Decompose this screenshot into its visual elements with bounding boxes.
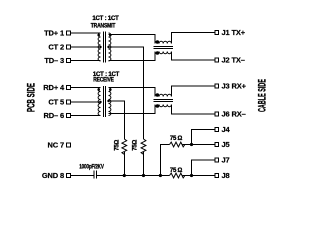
wire T2 secondary top to choke L2 <box>109 88 156 97</box>
svg-text:CT 2: CT 2 <box>48 43 64 52</box>
pin 1 TD+ <box>67 31 101 35</box>
wire T2 secondary CT down to R1 <box>109 101 125 139</box>
wire choke L2 top to J3 <box>171 86 215 97</box>
pin 6 RD- <box>67 114 101 118</box>
pin J7 <box>215 158 219 162</box>
choke L2 bottom winding <box>155 105 171 107</box>
transformer T1 left winding <box>98 33 100 61</box>
svg-text:CABLE SIDE: CABLE SIDE <box>257 79 269 112</box>
svg-text:J1 TX+: J1 TX+ <box>222 28 246 37</box>
svg-text:PCB SIDE: PCB SIDE <box>26 83 38 112</box>
pin 5 CT <box>67 100 101 104</box>
wire choke L1 top to J1 <box>171 33 215 44</box>
wire T2 secondary bottom to choke L2 <box>109 105 156 114</box>
choke L1 polarity dots <box>156 40 160 44</box>
transformer T1 right winding <box>109 33 111 61</box>
transformer T2 polarity dots <box>97 88 100 91</box>
svg-text:75 Ω: 75 Ω <box>170 168 183 174</box>
resistor R1 75ohm vertical <box>122 139 127 154</box>
wire J4 <box>192 130 216 145</box>
svg-text:GND 8: GND 8 <box>42 171 64 180</box>
pin 3 TD- <box>67 59 101 63</box>
svg-text:CT 5: CT 5 <box>48 98 64 107</box>
svg-text:J2 TX–: J2 TX– <box>222 56 245 65</box>
rail junction dots <box>123 174 126 177</box>
transformer T2 core <box>104 86 106 117</box>
pin J4 <box>215 128 219 132</box>
transformer T2 left winding <box>98 88 100 116</box>
choke L1 bottom winding <box>155 52 171 54</box>
svg-text:J6 RX–: J6 RX– <box>222 110 246 119</box>
pin 2 CT <box>67 45 101 49</box>
pin 4 RD+ <box>67 86 101 90</box>
svg-text:RD+ 4: RD+ 4 <box>43 83 65 92</box>
R3 right lead <box>183 144 192 146</box>
choke L1 top winding <box>155 41 171 43</box>
R3 left lead and drop to rail <box>160 145 169 176</box>
transformer T2 CT junction dots <box>99 101 101 103</box>
svg-text:75Ω: 75Ω <box>133 139 139 150</box>
svg-text:RECEIVE: RECEIVE <box>93 78 114 84</box>
pin J2 <box>215 58 219 62</box>
svg-text:J3 RX+: J3 RX+ <box>222 82 247 91</box>
svg-text:TD– 3: TD– 3 <box>44 56 64 65</box>
transformer T1 core <box>104 32 106 63</box>
wire choke L1 bottom to J2 <box>171 52 215 61</box>
resistor R1 leads <box>123 152 125 176</box>
svg-text:J7: J7 <box>222 156 230 165</box>
choke L2 top winding <box>155 94 171 96</box>
pin J1 <box>215 31 219 35</box>
svg-text:75 Ω: 75 Ω <box>170 136 183 142</box>
pin J3 <box>215 84 219 88</box>
junction dot J4/J5 <box>190 143 193 146</box>
choke L2 polarity dots <box>156 93 160 97</box>
pin J5 <box>215 143 219 147</box>
junction dot J7/J8 <box>190 174 193 177</box>
pin J8 <box>215 174 219 178</box>
pin J6 <box>215 112 219 116</box>
svg-text:RD– 6: RD– 6 <box>43 111 64 120</box>
transformer T1 CT junction dots <box>99 46 101 48</box>
wire T1 secondary bottom to choke L1 <box>109 52 156 61</box>
choke L1 core <box>154 47 174 49</box>
wire T1 secondary CT down to R2 <box>109 47 144 139</box>
svg-text:J5: J5 <box>222 140 230 149</box>
svg-text:1CT : 1CT: 1CT : 1CT <box>92 16 119 22</box>
capacitor C1 1000pF/2KV <box>94 170 97 178</box>
wire T1 secondary top to choke L1 <box>109 35 156 44</box>
svg-text:1000pF/2KV: 1000pF/2KV <box>79 165 104 171</box>
svg-text:J4: J4 <box>222 125 231 134</box>
ground rail wire <box>97 175 170 177</box>
svg-text:TD+ 1: TD+ 1 <box>44 29 64 38</box>
resistor R2 75ohm vertical <box>141 139 146 154</box>
svg-text:TRANSMIT: TRANSMIT <box>91 24 116 30</box>
wire J5 <box>192 144 216 146</box>
transformer T2 right winding <box>109 88 111 116</box>
svg-text:J8: J8 <box>222 171 230 180</box>
pin 7 NC <box>67 143 71 147</box>
resistor R4 75ohm horizontal (J7/J8 pair) <box>170 173 185 178</box>
R4 right lead to J8 <box>183 175 216 177</box>
wire J7 <box>192 160 216 176</box>
wire choke L2 bottom to J6 <box>171 105 215 115</box>
transformer T1 polarity dots <box>97 34 100 37</box>
resistor R2 leads <box>143 152 145 176</box>
svg-text:NC 7: NC 7 <box>48 141 65 150</box>
choke L2 core <box>154 100 174 102</box>
svg-text:75Ω: 75Ω <box>114 139 120 150</box>
pin 8 GND <box>67 174 95 178</box>
resistor R3 75ohm horizontal (J4/J5 pair) <box>170 142 185 147</box>
